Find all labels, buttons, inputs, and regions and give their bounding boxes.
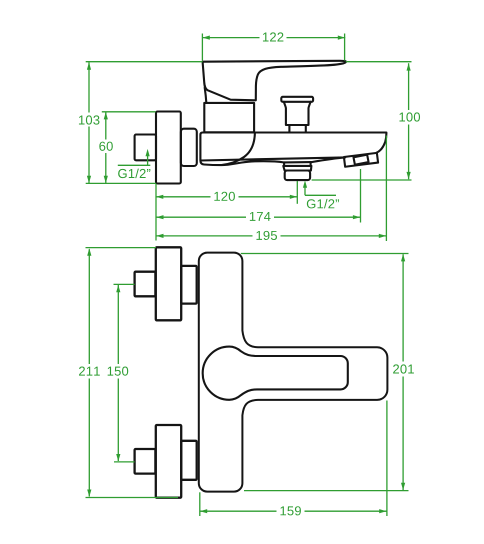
dim 201 line (402, 254, 404, 490)
spout outlet tilted box (344, 153, 378, 167)
dim 174 line (156, 216, 360, 218)
211 arrows (87, 248, 91, 255)
label 122 (263, 32, 283, 41)
label G1/2 bottom (307, 199, 339, 209)
159 arrows (200, 509, 207, 513)
dim 100 line (408, 63, 410, 179)
top ref line y247.6 (86, 247, 157, 249)
dim 159 line (200, 510, 387, 512)
G1/2 bottom leader (305, 184, 336, 196)
G1/2 top leader (118, 153, 151, 165)
label 195 (256, 231, 277, 240)
label 211 (79, 367, 100, 376)
label 60 (99, 142, 112, 151)
ext line at x386.9 (386, 401, 388, 517)
dim 211 line (88, 249, 90, 496)
left vertical ext at x156 (155, 184, 157, 241)
dim 201 ext top (241, 253, 409, 255)
label 174 (250, 212, 271, 221)
label 159 (280, 506, 300, 515)
ext line at x360 (360, 169, 362, 223)
dim 122 line (202, 37, 345, 39)
dim 150 line (117, 285, 119, 461)
GREEN DIMENSIONS (86, 34, 412, 517)
150 arrows (116, 285, 120, 292)
top mount: eccentric square (135, 272, 156, 297)
201 arrows (401, 254, 405, 261)
neck under lever (204, 103, 254, 132)
diverter knob stem (289, 125, 305, 132)
left bottom ref line (86, 182, 157, 184)
bottom mount: bracket (156, 425, 181, 498)
174 arrows (156, 215, 163, 219)
195 arrows (156, 234, 163, 238)
ext line at x297 (296, 181, 298, 204)
diverter knob cap (281, 97, 313, 102)
122 arrows (202, 36, 209, 40)
wall inlet square G1/2 top view (135, 135, 156, 161)
100 arrows (407, 63, 411, 70)
dim 195 line (156, 235, 386, 237)
diverter knob body (284, 102, 311, 125)
120 arrows (156, 195, 163, 199)
lever left lower edge (205, 88, 207, 103)
dim 120 line (156, 196, 297, 198)
body + lever outline bottom view (199, 253, 388, 492)
top mount: bracket (156, 247, 181, 320)
103 arrows (87, 62, 91, 69)
lever inner paddle (203, 347, 348, 400)
dim 60 line (105, 112, 107, 183)
bottom mount: nut (181, 441, 197, 480)
escutcheon top view (181, 129, 197, 166)
arrowheads (87, 36, 411, 514)
ext line y284.4 (114, 283, 135, 285)
label 120 (214, 192, 235, 201)
bottom mount: eccentric square (135, 449, 156, 474)
right bottom ref line (312, 179, 412, 181)
label G1/2 top (118, 169, 150, 179)
shower outlet cylinder G1/2 (285, 171, 310, 181)
lever handle top view (203, 61, 346, 101)
wall bracket top view (156, 112, 181, 184)
top mount: nut (181, 266, 197, 304)
faucet body top view (200, 133, 386, 166)
label 100 (399, 112, 420, 121)
dim 60 ext line (102, 111, 156, 113)
ref line handle top (86, 61, 412, 63)
label 103 (79, 115, 100, 124)
shower outlet flange (283, 162, 311, 170)
label 150 (108, 367, 129, 376)
bottom ref line y497.5 (86, 497, 179, 499)
ext line at x386 (385, 136, 387, 242)
dim 103 line (88, 62, 90, 183)
body fillet curve under neck (222, 133, 255, 165)
G1/2 top arrow (146, 149, 150, 156)
dim 201 ext bottom (244, 490, 409, 492)
dim 122 ext lines (202, 34, 344, 61)
G1/2 bottom arrow (303, 180, 307, 187)
ext line y461.9 (114, 461, 135, 463)
ext line at x199.8 (199, 492, 201, 516)
60 arrows (104, 112, 108, 119)
label 201 (393, 364, 414, 373)
